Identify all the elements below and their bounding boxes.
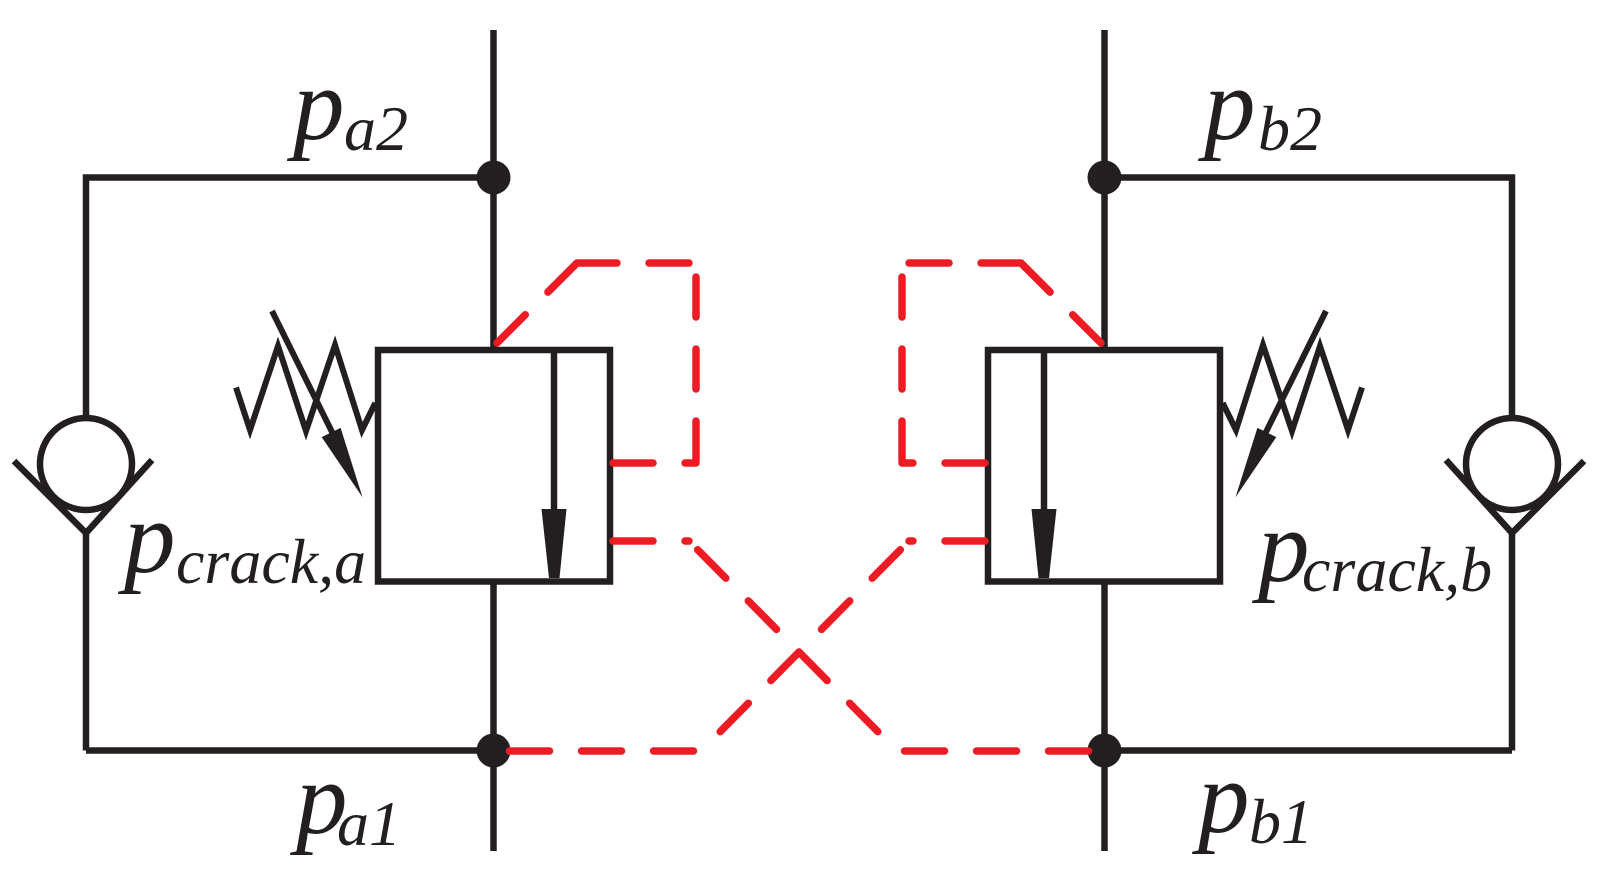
- node pa1 junction dot: [477, 734, 511, 768]
- svg-text:p: p: [117, 481, 176, 595]
- pilot B lower: out of sense port: [909, 537, 985, 545]
- svg-text:a2: a2: [344, 93, 408, 164]
- pilot B lower: horizontal to node pa1: [510, 747, 702, 755]
- spring B adjustment arrow shaft: [1265, 311, 1326, 434]
- pilot A upper: top horizontal: [577, 259, 696, 267]
- svg-text:crack,b: crack,b: [1302, 534, 1492, 605]
- wire: left bottom rail: [86, 747, 494, 754]
- spring B (adjustable): [1223, 345, 1362, 431]
- wire: right main vertical line top (port b2 down to valve): [1101, 30, 1108, 350]
- svg-text:p: p: [286, 48, 345, 162]
- pilot B upper: into spring chamber port: [902, 459, 985, 467]
- pilot A upper: diagonal from valve A top: [497, 263, 577, 343]
- spring A adjustment arrow shaft: [272, 311, 333, 434]
- relief valve A internal flow arrowhead: [542, 509, 567, 578]
- wire: right main vertical line bottom (valve down to port b1): [1101, 579, 1108, 851]
- relief valve B internal flow arrowhead: [1032, 509, 1057, 578]
- wire: right check valve lower stem: [1509, 531, 1516, 751]
- spring B adjustment arrowhead: [1236, 428, 1277, 497]
- pilot B upper: vertical drop: [898, 263, 906, 463]
- relief valve A internal flow line: [551, 350, 558, 511]
- node pb2 junction dot: [1088, 161, 1122, 195]
- pilot A lower: out of sense port: [613, 537, 689, 545]
- node pb1 junction dot: [1088, 734, 1122, 768]
- wire: left main vertical line top (port a2 down to valve): [490, 30, 497, 350]
- spring A adjustment arrowhead: [322, 428, 363, 497]
- relief valve A body: [378, 350, 610, 582]
- node pa2 junction dot: [477, 161, 511, 195]
- pilot A upper: vertical drop: [692, 263, 700, 463]
- pilot B upper: diagonal from valve B top: [1021, 263, 1101, 343]
- svg-text:crack,a: crack,a: [176, 526, 366, 597]
- svg-text:a1: a1: [337, 788, 401, 859]
- spring A (adjustable): [236, 345, 375, 431]
- pilot A lower: horizontal to node pb1: [897, 747, 1089, 755]
- check valve Va seat: [14, 460, 152, 533]
- svg-text:p: p: [1251, 490, 1310, 604]
- svg-text:p: p: [1197, 48, 1256, 162]
- relief valve B body: [988, 350, 1220, 582]
- wire: left check valve lower stem: [83, 531, 90, 751]
- svg-text:b1: b1: [1249, 786, 1313, 857]
- check valve Vb seat: [1446, 460, 1584, 533]
- check valve Vb circle: [1466, 418, 1558, 510]
- check valve Va circle: [40, 418, 132, 510]
- pilot B upper: top horizontal: [902, 259, 1021, 267]
- wire: right bottom rail: [1105, 747, 1513, 754]
- svg-text:p: p: [1191, 741, 1250, 855]
- pilot A lower: crossing diagonal: [689, 541, 897, 751]
- wire: left main vertical line bottom (valve down to port a1): [490, 579, 497, 851]
- pilot A upper: into spring chamber port: [613, 459, 696, 467]
- wire: right top rail from bypass branch to node: [1105, 178, 1513, 419]
- pilot B lower: crossing diagonal: [701, 541, 909, 751]
- svg-text:b2: b2: [1258, 93, 1322, 164]
- wire: left top rail from bypass branch to node: [86, 178, 494, 419]
- relief valve B internal flow line: [1041, 350, 1048, 511]
